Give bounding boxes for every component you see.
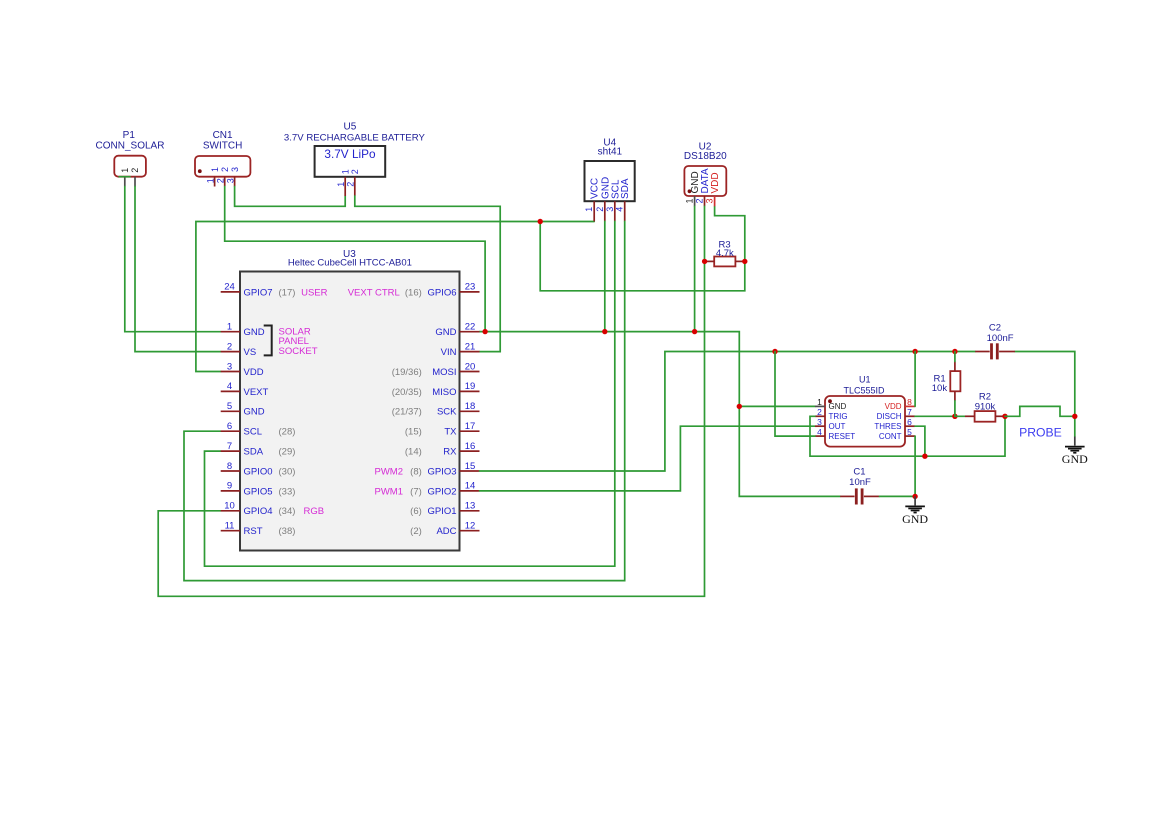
U3 reference label <box>288 249 412 268</box>
U2 pin 1 GND <box>685 171 702 206</box>
svg-text:GPIO4: GPIO4 <box>244 506 273 517</box>
svg-text:2: 2 <box>595 207 605 212</box>
U4 pin 4 SDA <box>615 178 632 221</box>
svg-text:(6): (6) <box>410 506 422 517</box>
MCU U3 Heltec CubeCell HTCC-AB01 body <box>240 272 460 551</box>
U2 reference label <box>684 141 727 162</box>
capacitor C1 body <box>856 488 862 504</box>
svg-text:RESET: RESET <box>829 432 856 441</box>
svg-text:SCK: SCK <box>437 407 457 418</box>
U1 pin 1 GND <box>815 397 847 411</box>
svg-text:(14): (14) <box>405 447 422 458</box>
U2 pin-1 indicator dot <box>688 189 692 193</box>
svg-text:MOSI: MOSI <box>432 367 456 378</box>
U4 pin 3 SCL <box>605 179 622 221</box>
svg-text:8: 8 <box>227 461 232 472</box>
svg-text:TLC555ID: TLC555ID <box>843 386 885 396</box>
wire rail after C2 to right corner down to GND <box>1015 352 1075 437</box>
wire CN1 pin3 to U5 pin1 <box>235 187 346 207</box>
svg-text:RST: RST <box>244 526 263 537</box>
junction PROBE net at GND drop <box>1072 414 1077 419</box>
svg-text:6: 6 <box>227 421 232 432</box>
wire P1 pin2 to U3 VS pin2 <box>135 187 221 352</box>
wire P1 pin1 to U3 GND pin1 <box>125 187 221 332</box>
wire U1 THRES pin6 down to TRIG net <box>915 426 925 456</box>
ground symbol GND (C1 node) <box>902 496 928 526</box>
timer U1 TLC555ID body <box>825 396 905 447</box>
svg-text:1: 1 <box>817 397 822 407</box>
svg-text:SWITCH: SWITCH <box>203 140 242 151</box>
R1 bottom stub <box>954 391 956 401</box>
svg-text:U5: U5 <box>344 122 357 133</box>
svg-text:PROBE: PROBE <box>1019 425 1062 439</box>
svg-text:USER: USER <box>301 287 328 298</box>
svg-text:(34): (34) <box>279 506 296 517</box>
C2 labels 100nF <box>987 323 1014 344</box>
svg-text:100nF: 100nF <box>987 333 1014 344</box>
U3 pin 11 RST (left) <box>221 521 263 538</box>
svg-text:23: 23 <box>465 282 476 293</box>
svg-text:3.7V LiPo: 3.7V LiPo <box>324 147 376 161</box>
svg-text:1: 1 <box>227 322 232 333</box>
C2 left stub <box>975 351 990 353</box>
svg-text:GPIO6: GPIO6 <box>427 287 456 298</box>
U3 pin 6 SCL (left) <box>221 421 262 438</box>
U3 pin 16 RX (right) <box>443 441 479 458</box>
U3 inner annotations right column <box>348 287 422 537</box>
svg-text:Heltec CubeCell HTCC-AB01: Heltec CubeCell HTCC-AB01 <box>288 257 412 268</box>
junction rail at RESET branch <box>772 349 777 354</box>
U1 pin-1 indicator dot <box>828 399 832 403</box>
svg-text:VIN: VIN <box>441 347 457 358</box>
wire R2 right jog to output GND corner (PROBE net) <box>1005 406 1075 416</box>
svg-text:GPIO7: GPIO7 <box>244 287 273 298</box>
svg-text:U1: U1 <box>859 375 871 385</box>
svg-text:1: 1 <box>584 207 594 212</box>
svg-text:VCC: VCC <box>590 178 601 199</box>
wire VDD rail from U3 VDD pin3 to U4 VCC pin1 <box>196 222 594 372</box>
svg-text:19: 19 <box>465 381 476 392</box>
junction GND rail at CN1 branch <box>482 329 487 334</box>
junction rail at VDD pin8 branch <box>912 349 917 354</box>
svg-text:4: 4 <box>817 427 822 437</box>
wire U1 RESET pin4 to V+ rail <box>775 352 815 437</box>
svg-text:3: 3 <box>705 198 715 203</box>
svg-text:GPIO1: GPIO1 <box>427 506 456 517</box>
wire U1 DISCH pin7 to R1/R2 node <box>915 415 955 417</box>
junction GND at U1 pin1 branch <box>737 404 742 409</box>
svg-text:VEXT: VEXT <box>244 387 269 398</box>
wire U1 VDD pin8 to V+ rail <box>914 352 916 407</box>
C1 right stub <box>864 495 880 497</box>
svg-text:17: 17 <box>465 421 476 432</box>
svg-text:MISO: MISO <box>432 387 456 398</box>
C1 labels 10nF <box>849 467 871 489</box>
svg-text:(16): (16) <box>405 287 422 298</box>
svg-text:7: 7 <box>227 441 232 452</box>
svg-text:910k: 910k <box>975 401 996 412</box>
svg-text:10nF: 10nF <box>849 477 871 488</box>
svg-text:DS18B20: DS18B20 <box>684 151 727 162</box>
svg-text:(33): (33) <box>279 486 296 497</box>
connector CN1 SWITCH body <box>195 156 250 177</box>
svg-text:21: 21 <box>465 341 476 352</box>
svg-text:1: 1 <box>336 182 346 187</box>
svg-text:3: 3 <box>227 361 232 372</box>
CN1 pin-1 indicator dot <box>198 169 202 173</box>
svg-text:sht41: sht41 <box>598 146 623 157</box>
connector P1 CONN_SOLAR body <box>114 156 146 177</box>
wire DISCH node to R2 <box>955 415 965 417</box>
wire stub on P1 bottom edge <box>119 176 130 178</box>
svg-text:4.7k: 4.7k <box>716 248 734 259</box>
svg-text:3: 3 <box>605 207 615 212</box>
CN1 pin 3 <box>225 167 239 187</box>
svg-text:2: 2 <box>350 169 360 174</box>
U3 SOLAR PANEL SOCKET label <box>279 327 318 357</box>
junction GND rail at U4 pin2 <box>602 329 607 334</box>
wire CN1 pin2 to GND rail (node GND) <box>225 187 485 332</box>
wire U4 GND pin2 to GND rail <box>604 221 606 331</box>
U4 pin 2 GND <box>595 177 612 222</box>
resistor R2 body <box>975 411 996 422</box>
junction C1 / CONT / GND <box>912 494 917 499</box>
wire U5 pin2 to U3 VIN pin21 <box>355 196 500 352</box>
junction VDD rail / branch <box>538 219 543 224</box>
wire rail to R1 <box>954 352 956 362</box>
sensor U2 DS18B20 body <box>684 166 726 196</box>
U3 pin 14 GPIO2 (right) <box>427 481 479 498</box>
svg-text:VEXT CTRL: VEXT CTRL <box>348 287 400 298</box>
junction THRES / TRIG net <box>922 454 927 459</box>
svg-text:SCL: SCL <box>244 427 262 438</box>
U3 pin 7 SDA (left) <box>221 441 264 458</box>
U3 pin 20 MOSI (right) <box>432 361 479 378</box>
svg-text:(7): (7) <box>410 486 422 497</box>
junction R2 right / TRIG branch <box>1002 414 1007 419</box>
wire U3 GPIO2 pin14 to U1 OUT pin3 <box>480 426 816 491</box>
svg-text:VDD: VDD <box>885 402 902 411</box>
U5 pin 1 <box>336 169 350 196</box>
U3 pin 12 ADC (right) <box>436 521 479 538</box>
R1 labels 10k <box>932 374 948 394</box>
U1 pin 5 CONT <box>879 427 915 441</box>
C2 right stub <box>999 351 1015 353</box>
U3 pin 13 GPIO1 (right) <box>427 501 479 518</box>
CN1 reference label <box>203 130 242 151</box>
svg-text:PWM2: PWM2 <box>375 466 404 477</box>
svg-text:2: 2 <box>216 178 226 183</box>
wire U3 GPIO3 pin15 to 555 V+ rail <box>480 352 976 472</box>
ground symbol GND (PROBE net) <box>1062 437 1088 467</box>
U3 pin 4 VEXT (left) <box>221 381 269 398</box>
svg-text:4: 4 <box>615 207 625 212</box>
U1 pin 2 TRIG <box>815 407 848 421</box>
R3 labels 4.7k <box>716 239 734 259</box>
svg-text:2: 2 <box>817 407 822 417</box>
svg-text:GPIO3: GPIO3 <box>427 466 456 477</box>
battery U5 3.7V RECHARGABLE BATTERY body <box>315 146 386 177</box>
svg-text:24: 24 <box>224 282 235 293</box>
svg-text:3: 3 <box>230 167 240 172</box>
svg-text:(30): (30) <box>279 466 296 477</box>
svg-text:13: 13 <box>465 501 476 512</box>
svg-text:TRIG: TRIG <box>829 412 848 421</box>
svg-text:5: 5 <box>227 401 232 412</box>
wire U1 CONT pin5 down to C1/GND junction <box>914 436 916 496</box>
junction DISCH node at R1 bottom <box>952 414 957 419</box>
wire GND rail from U3 GND pin22 to capacitor C1 <box>480 332 841 497</box>
wire U1 TRIG pin2 to THRES node <box>810 416 1005 456</box>
svg-text:(29): (29) <box>279 447 296 458</box>
svg-text:3: 3 <box>817 417 822 427</box>
wire U4 SCL pin3 to U3 SDA pin7 <box>205 221 615 566</box>
svg-text:THRES: THRES <box>874 422 901 431</box>
junction GND rail at U2 pin1 <box>692 329 697 334</box>
svg-text:2: 2 <box>130 168 140 173</box>
wire U2 GND pin1 to GND rail <box>694 206 696 331</box>
U3 pin 21 VIN (right) <box>441 341 480 358</box>
U1 reference label <box>843 375 885 396</box>
U5 reference label <box>284 122 426 144</box>
junction rail at R1 branch <box>952 349 957 354</box>
wire U2 DATA pin2 to U3 GPIO4 pin10 <box>158 206 704 596</box>
svg-text:(15): (15) <box>405 427 422 438</box>
svg-text:SDA: SDA <box>244 447 264 458</box>
CN1 pin 1 <box>205 167 219 187</box>
svg-text:4: 4 <box>227 381 232 392</box>
svg-text:(28): (28) <box>279 427 296 438</box>
svg-text:GND: GND <box>435 327 456 338</box>
svg-text:16: 16 <box>465 441 476 452</box>
svg-text:11: 11 <box>225 521 235 532</box>
svg-text:(38): (38) <box>279 526 296 537</box>
R2 labels 910k <box>975 392 996 413</box>
svg-text:OUT: OUT <box>829 422 846 431</box>
svg-text:CONN_SOLAR: CONN_SOLAR <box>96 140 165 151</box>
svg-text:SOCKET: SOCKET <box>279 346 318 357</box>
U1 pin 4 RESET <box>815 427 855 441</box>
svg-text:DISCH: DISCH <box>877 412 902 421</box>
U3 pin 24 GPIO7 (left) <box>221 282 273 299</box>
svg-text:7: 7 <box>907 407 912 417</box>
junction R3 left on DATA net <box>702 259 707 264</box>
svg-text:RX: RX <box>443 447 457 458</box>
svg-text:GND: GND <box>244 407 265 418</box>
svg-text:10k: 10k <box>932 383 948 394</box>
junction R3 right on VDD branch <box>742 259 747 264</box>
svg-text:C1: C1 <box>853 467 865 478</box>
svg-text:6: 6 <box>907 417 912 427</box>
P1 pin 1 <box>120 168 130 187</box>
P1 reference label <box>96 130 165 151</box>
svg-text:PWM1: PWM1 <box>375 486 404 497</box>
svg-text:2: 2 <box>227 341 232 352</box>
svg-text:(2): (2) <box>410 526 422 537</box>
svg-text:VDD: VDD <box>244 367 264 378</box>
resistor R1 body <box>950 371 960 391</box>
U1 pin 8 VDD <box>885 397 915 411</box>
U3 pin 8 GPIO0 (left) <box>221 461 273 478</box>
U5 pin 2 <box>346 169 360 196</box>
svg-text:SDA: SDA <box>620 178 631 199</box>
R2 right stub <box>995 415 1005 417</box>
U1 pin 7 DISCH <box>877 407 915 421</box>
U3 pin 2 VS (left) <box>221 341 256 358</box>
wire R1 to DISCH node <box>954 401 956 416</box>
U3 pin 17 TX (right) <box>444 421 479 438</box>
svg-text:ADC: ADC <box>436 526 456 537</box>
svg-text:15: 15 <box>465 461 476 472</box>
wire U1 GND pin1 branch <box>739 405 815 407</box>
svg-text:1: 1 <box>340 169 350 174</box>
capacitor C2 body <box>992 343 998 359</box>
svg-text:9: 9 <box>227 481 232 492</box>
U3 pin 23 GPIO6 (right) <box>427 282 479 299</box>
svg-text:RGB: RGB <box>304 506 325 517</box>
U3 pin 18 SCK (right) <box>437 401 480 418</box>
C1 left stub <box>840 495 854 497</box>
svg-text:10: 10 <box>224 501 235 512</box>
svg-text:(19/36): (19/36) <box>392 367 422 378</box>
svg-text:1: 1 <box>120 168 130 173</box>
svg-text:GPIO0: GPIO0 <box>244 466 273 477</box>
U3 inner annotations left column <box>279 287 328 537</box>
svg-text:18: 18 <box>465 401 476 412</box>
U3 pin 9 GPIO5 (left) <box>221 481 273 498</box>
svg-text:12: 12 <box>465 521 476 532</box>
svg-text:VS: VS <box>244 347 257 358</box>
U3 pin 15 GPIO3 (right) <box>427 461 479 478</box>
svg-text:VDD: VDD <box>710 172 721 193</box>
svg-text:1: 1 <box>205 178 215 183</box>
U3 pin 19 MISO (right) <box>432 381 479 398</box>
U2 pin 3 VDD <box>705 172 722 206</box>
svg-text:(20/35): (20/35) <box>392 387 422 398</box>
svg-text:20: 20 <box>465 361 476 372</box>
wire U4 SDA pin4 to U3 SCL pin6 <box>184 221 625 580</box>
R3 right stub <box>735 260 744 262</box>
resistor R3 body <box>714 257 735 267</box>
svg-text:CONT: CONT <box>879 432 902 441</box>
CN1 pin 2 <box>216 167 230 187</box>
svg-text:(21/37): (21/37) <box>392 407 422 418</box>
svg-text:2: 2 <box>220 167 230 172</box>
svg-text:8: 8 <box>907 397 912 407</box>
U1 pin 3 OUT <box>815 417 846 431</box>
svg-text:(8): (8) <box>410 466 422 477</box>
svg-text:3.7V RECHARGABLE BATTERY: 3.7V RECHARGABLE BATTERY <box>284 133 426 144</box>
U4 reference label <box>598 137 623 157</box>
svg-text:3: 3 <box>225 178 235 183</box>
svg-text:2: 2 <box>695 198 705 203</box>
svg-text:GND: GND <box>902 512 928 526</box>
R2 left stub <box>965 415 975 417</box>
svg-text:14: 14 <box>465 481 476 492</box>
U2 pin 2 DATA <box>695 168 712 206</box>
svg-text:(17): (17) <box>279 287 296 298</box>
svg-text:GPIO2: GPIO2 <box>427 486 456 497</box>
U3 pin 22 GND (right) <box>435 322 479 339</box>
wire C1 right to GND junction <box>880 495 916 497</box>
P1 pin 2 <box>130 168 140 187</box>
svg-text:2: 2 <box>346 182 356 187</box>
wire VDD branch down to U2 VDD pin3 <box>540 206 745 290</box>
U3 pin 3 VDD (left) <box>221 361 264 378</box>
U3 solar panel socket bracket <box>264 326 272 356</box>
svg-text:1: 1 <box>210 167 220 172</box>
U3 pin 1 GND (left) <box>221 322 265 339</box>
U3 pin 5 GND (left) <box>221 401 265 418</box>
sensor U4 sht41 body <box>585 161 635 201</box>
svg-text:GPIO5: GPIO5 <box>244 486 273 497</box>
svg-text:5: 5 <box>907 427 912 437</box>
R3 left stub <box>705 260 715 262</box>
svg-text:TX: TX <box>444 427 457 438</box>
svg-text:22: 22 <box>465 322 476 333</box>
svg-text:GND: GND <box>244 327 265 338</box>
svg-text:GND: GND <box>1062 452 1088 466</box>
svg-text:GND: GND <box>829 402 847 411</box>
svg-text:1: 1 <box>685 198 695 203</box>
U4 pin 1 VCC <box>584 178 601 222</box>
U3 pin 10 GPIO4 (left) <box>221 501 273 518</box>
U1 pin 6 THRES <box>874 417 915 431</box>
R1 top stub <box>954 362 956 372</box>
